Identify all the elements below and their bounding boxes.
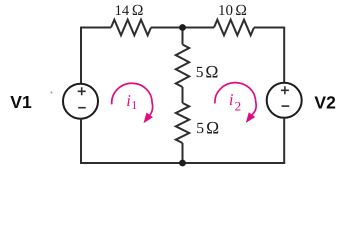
svg-text:Ω: Ω [235, 2, 247, 19]
svg-text:14: 14 [115, 3, 130, 19]
svg-text:10: 10 [218, 3, 233, 19]
voltage source V1 circle [63, 84, 98, 119]
V1 minus sign [78, 107, 86, 109]
node bottom junction dot [179, 160, 186, 167]
svg-text:5: 5 [196, 64, 204, 81]
mesh current i2 arrowhead [246, 112, 255, 123]
voltage source V2 circle [267, 83, 302, 118]
svg-text:i: i [229, 90, 234, 109]
mesh current i1 arrowhead [144, 113, 153, 124]
wire bottom horizontal [80, 162, 285, 164]
resistor R4 5ohm zigzag bottom [176, 103, 189, 143]
wire top-right horizontal [254, 27, 284, 29]
stray speck artifact [51, 92, 53, 94]
svg-text:V2: V2 [314, 93, 336, 113]
wire right vertical upper [283, 27, 285, 83]
wire top-middle horizontal [151, 27, 214, 29]
V2 minus sign [282, 105, 290, 107]
resistor R3 5ohm zigzag top [176, 45, 189, 88]
wire middle stem center [182, 87, 184, 103]
wire right vertical lower [283, 118, 285, 164]
svg-text:V1: V1 [10, 92, 32, 112]
wire middle stem upper [182, 28, 184, 45]
svg-text:1: 1 [131, 98, 137, 112]
svg-text:2: 2 [235, 99, 242, 114]
svg-text:Ω: Ω [132, 2, 144, 19]
wire left vertical lower [80, 119, 82, 164]
mesh current i1 arc [112, 83, 153, 115]
wire middle stem lower [182, 143, 184, 163]
wire left vertical upper [80, 27, 82, 84]
svg-text:5: 5 [196, 120, 204, 137]
wire top-left horizontal [81, 27, 111, 29]
svg-text:Ω: Ω [205, 62, 218, 82]
V1 plus sign [78, 87, 86, 95]
V2 plus sign [281, 86, 289, 94]
mesh current i2 arc [215, 83, 256, 115]
resistor R2 10ohm zigzag [214, 20, 254, 36]
node top junction dot [179, 24, 186, 31]
resistor R1 14ohm zigzag [111, 20, 151, 36]
svg-text:Ω: Ω [206, 118, 219, 138]
